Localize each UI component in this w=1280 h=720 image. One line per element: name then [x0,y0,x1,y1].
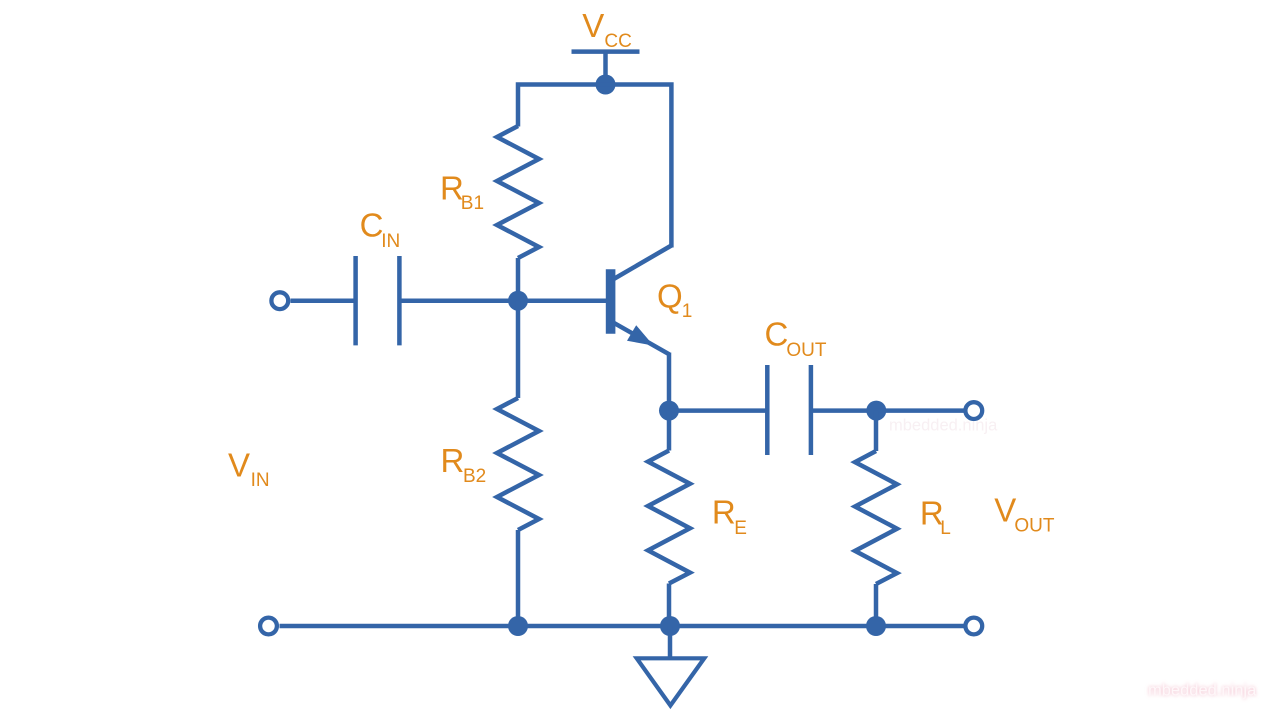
power bar VCC [572,49,640,54]
wire base node to RB2 [516,301,521,398]
resistor RB1 [497,126,539,258]
node VCC junction [596,75,616,95]
svg-text:IN: IN [381,231,400,252]
svg-text:E: E [734,518,747,539]
svg-text:V: V [582,7,604,44]
resistor RB2 [497,398,539,530]
wire CIN to base [399,298,606,303]
node emitter [659,401,679,421]
svg-text:OUT: OUT [786,340,827,361]
terminal bottom left [260,618,277,635]
svg-text:IN: IN [251,470,270,491]
svg-text:L: L [940,518,951,539]
svg-text:mbedded.ninja: mbedded.ninja [1148,682,1257,700]
wire COUT to output node [811,408,876,413]
wire RB2 to rail [516,530,521,626]
wire RE top stub [667,411,672,451]
transistor Q1 [611,246,672,355]
watermark bottom right [1148,682,1257,700]
wire RL top stub [874,411,879,451]
svg-text:R: R [712,494,736,531]
svg-text:R: R [441,442,465,479]
terminal bottom right [965,618,982,635]
svg-text:C: C [765,315,789,352]
terminal input [271,292,288,309]
resistor RL [855,451,897,584]
wire output node to terminal [876,408,965,413]
resistor RE [648,451,690,584]
terminal output [965,402,982,419]
node ground rail junction [660,616,680,636]
wire VCC stub [603,52,608,86]
svg-text:V: V [994,492,1016,529]
svg-text:CC: CC [604,31,631,52]
capacitor CIN [356,256,400,345]
svg-text:B2: B2 [463,466,486,487]
svg-text:V: V [228,446,250,483]
svg-text:Q: Q [657,278,683,315]
capacitor COUT [767,365,811,455]
wire bottom rail [280,624,966,629]
node output [866,401,886,421]
svg-text:C: C [360,206,384,243]
wire emitter vertical [667,353,672,411]
wire input to CIN [291,298,356,303]
wire RL to rail [874,584,879,626]
svg-text:1: 1 [682,301,693,322]
svg-text:mbedded.ninja: mbedded.ninja [889,417,998,435]
wire RB1 to base node [516,258,521,301]
ground [637,626,705,706]
wire emitter to COUT [669,408,767,413]
svg-text:B1: B1 [461,193,484,214]
node RL rail junction [866,616,886,636]
node RB2 rail junction [508,616,528,636]
wire top rail [518,85,671,248]
svg-text:OUT: OUT [1014,516,1055,537]
node base [508,291,528,311]
wire RE to rail [667,584,672,627]
